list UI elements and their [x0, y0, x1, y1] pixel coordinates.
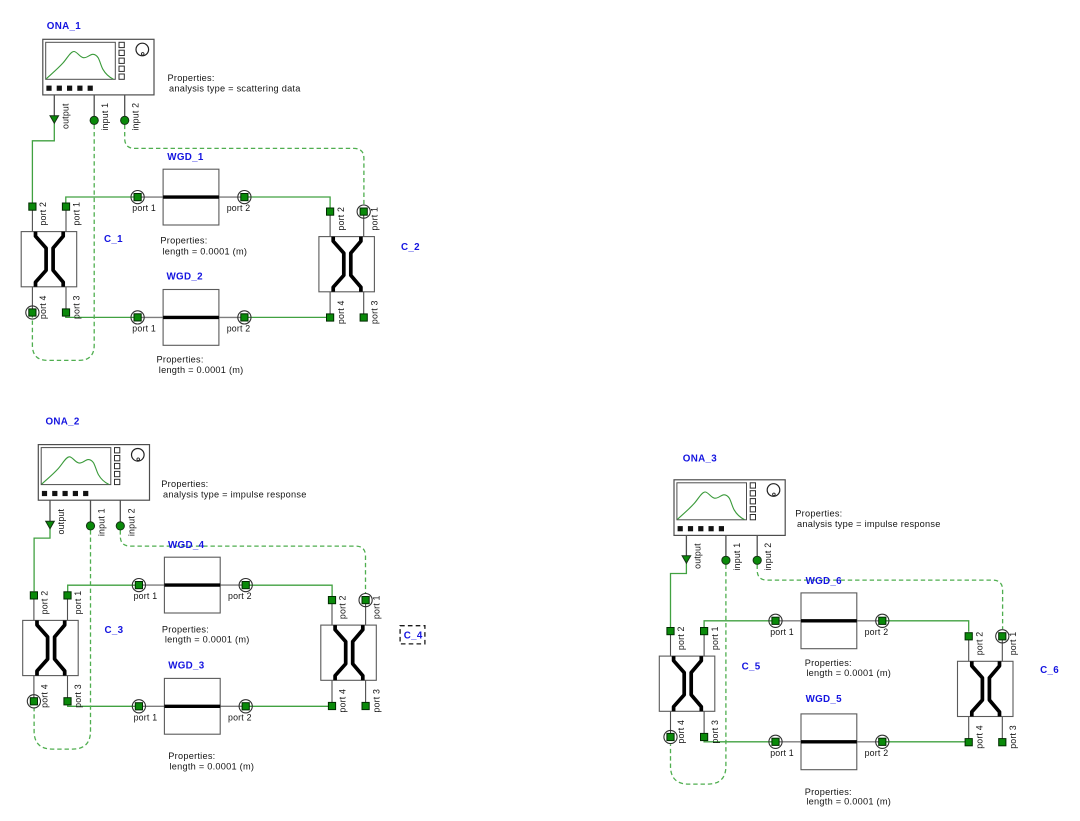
- coupler C_2: [319, 212, 375, 318]
- svg-text:Properties:: Properties:: [795, 508, 842, 518]
- svg-text:ONA_3: ONA_3: [683, 453, 717, 464]
- svg-text:input 1: input 1: [732, 543, 742, 571]
- svg-text:output: output: [56, 508, 66, 534]
- svg-text:input 1: input 1: [100, 103, 110, 131]
- port WGD_2.port2: [227, 311, 251, 334]
- wire WGD_4.port2 to C_4.port2: [246, 585, 332, 596]
- svg-text:port 2: port 2: [228, 591, 252, 601]
- svg-text:port 3: port 3: [710, 720, 720, 744]
- wire WGD_5.port2 to C_6.port4: [882, 741, 968, 743]
- svg-text:C_6: C_6: [1040, 665, 1059, 676]
- svg-text:port 1: port 1: [371, 595, 381, 619]
- properties annotation of ONA_1: [168, 73, 302, 94]
- svg-text:port 3: port 3: [369, 300, 379, 324]
- svg-text:length = 0.0001 (m): length = 0.0001 (m): [806, 668, 891, 678]
- port C_6.port2: [965, 632, 984, 656]
- pin output of ONA_1: [50, 95, 70, 129]
- port C_4.port1: [359, 594, 381, 620]
- port C_2.port1: [357, 205, 379, 231]
- port WGD_5.port2: [865, 735, 889, 758]
- port C_1.port1: [62, 202, 81, 226]
- svg-text:port 1: port 1: [1008, 632, 1018, 656]
- svg-text:C_1: C_1: [104, 234, 123, 245]
- svg-text:port 4: port 4: [676, 720, 686, 744]
- port C_5.port4: [664, 720, 686, 744]
- svg-text:port 4: port 4: [338, 689, 348, 713]
- svg-text:input 2: input 2: [131, 103, 141, 131]
- wire WGD_6.port2 to C_6.port2: [882, 621, 968, 632]
- waveguide WGD_1: [138, 169, 245, 225]
- svg-text:port 2: port 2: [40, 591, 50, 615]
- coupler C_5: [659, 631, 715, 737]
- svg-text:WGD_1: WGD_1: [167, 152, 204, 163]
- svg-text:port 4: port 4: [40, 684, 50, 708]
- coupler C_3: [23, 595, 78, 701]
- wire ONA_1.output to C_1.port2: [32, 123, 54, 203]
- properties annotation of WGD_6: [805, 658, 891, 678]
- waveguide WGD_5: [776, 714, 883, 770]
- dashed wire ONA_3.input2 to C_6.port1: [757, 565, 1002, 629]
- port C_4.port3: [362, 689, 381, 713]
- svg-text:WGD_6: WGD_6: [806, 576, 843, 587]
- svg-text:WGD_4: WGD_4: [168, 540, 205, 551]
- port C_3.port2: [30, 591, 49, 615]
- wire C_1.port1 to WGD_1.port1: [66, 197, 138, 207]
- svg-text:port 3: port 3: [371, 689, 381, 713]
- pin input 1 of ONA_1: [90, 95, 110, 131]
- properties annotation of ONA_3: [795, 508, 940, 529]
- pin input 2 of ONA_1: [121, 95, 141, 131]
- wire WGD_1.port2 to C_2.port2: [245, 197, 330, 208]
- properties annotation of ONA_2: [161, 479, 306, 499]
- port WGD_6.port1: [769, 614, 794, 637]
- svg-text:port 4: port 4: [336, 300, 346, 324]
- port C_6.port4: [965, 725, 984, 749]
- svg-text:ONA_1: ONA_1: [47, 21, 81, 32]
- port WGD_1.port1: [131, 191, 156, 214]
- wire ONA_3.output to C_5.port2: [671, 563, 687, 627]
- svg-text:length = 0.0001 (m): length = 0.0001 (m): [806, 797, 891, 807]
- svg-text:WGD_5: WGD_5: [806, 694, 843, 705]
- port C_5.port1: [701, 626, 720, 650]
- port C_5.port3: [701, 720, 720, 744]
- svg-text:port 1: port 1: [132, 323, 156, 333]
- port C_2.port4: [327, 300, 346, 324]
- svg-text:C_2: C_2: [401, 242, 420, 253]
- port C_4.port4: [328, 689, 347, 713]
- svg-text:port 1: port 1: [710, 626, 720, 650]
- wire C_3.port3 to WGD_3.port1: [68, 701, 139, 706]
- pin output of ONA_3: [682, 535, 702, 569]
- pin input 2 of ONA_2: [116, 500, 136, 536]
- svg-text:port 1: port 1: [134, 591, 158, 601]
- wire ONA_2.output to C_3.port2: [34, 528, 50, 592]
- svg-text:port 1: port 1: [369, 207, 379, 231]
- instrument ONA_2 (optical network analyzer icon): [38, 445, 149, 501]
- wire WGD_3.port2 to C_4.port4: [246, 705, 332, 707]
- svg-text:Properties:: Properties:: [162, 624, 209, 634]
- port WGD_5.port1: [769, 735, 794, 758]
- svg-text:input 2: input 2: [126, 508, 136, 536]
- wire C_3.port1 to WGD_4.port1: [68, 585, 139, 595]
- dashed wire ONA_1.input2 to C_2.port1: [125, 125, 364, 206]
- port C_1.port3: [62, 295, 81, 319]
- svg-text:input 2: input 2: [763, 543, 773, 571]
- svg-text:port 2: port 2: [336, 207, 346, 231]
- svg-text:analysis type = impulse respon: analysis type = impulse response: [797, 519, 941, 529]
- coupler C_1: [21, 207, 76, 313]
- waveguide WGD_6: [776, 593, 883, 649]
- svg-text:Properties:: Properties:: [805, 787, 852, 797]
- svg-text:port 3: port 3: [1008, 725, 1018, 749]
- svg-text:port 1: port 1: [72, 202, 82, 226]
- port C_2.port2: [327, 207, 346, 231]
- svg-text:WGD_3: WGD_3: [168, 661, 205, 672]
- svg-text:port 3: port 3: [72, 295, 82, 319]
- coupler C_4: [321, 600, 377, 706]
- svg-text:Properties:: Properties:: [160, 235, 207, 245]
- svg-text:port 1: port 1: [770, 748, 794, 758]
- port C_1.port2: [29, 202, 48, 226]
- wire C_5.port3 to WGD_5.port1: [704, 737, 778, 741]
- dashed wire ONA_2.input2 to C_4.port1: [120, 530, 365, 594]
- svg-text:port 3: port 3: [73, 684, 83, 708]
- properties annotation of WGD_1: [160, 235, 247, 256]
- port WGD_4.port2: [228, 579, 252, 602]
- svg-text:Properties:: Properties:: [161, 479, 208, 489]
- properties annotation of WGD_3: [168, 751, 254, 771]
- waveguide WGD_3: [139, 678, 246, 734]
- svg-text:Properties:: Properties:: [168, 751, 215, 761]
- instrument ONA_3 (optical network analyzer icon): [674, 480, 785, 536]
- svg-text:port 2: port 2: [227, 203, 251, 213]
- properties annotation of WGD_4: [162, 624, 250, 644]
- svg-text:length = 0.0001 (m): length = 0.0001 (m): [165, 635, 250, 645]
- svg-text:port 1: port 1: [132, 203, 156, 213]
- port WGD_2.port1: [131, 311, 156, 334]
- dashed wire ONA_1.input1 to C_1.port4: [32, 125, 94, 361]
- svg-text:port 1: port 1: [770, 627, 794, 637]
- svg-text:port 2: port 2: [38, 202, 48, 226]
- svg-text:input 1: input 1: [97, 508, 107, 536]
- port WGD_3.port1: [132, 700, 157, 723]
- pin input 1 of ONA_3: [722, 535, 742, 570]
- svg-text:port 2: port 2: [227, 323, 251, 333]
- svg-text:C_5: C_5: [742, 662, 761, 673]
- coupler C_6: [958, 636, 1014, 742]
- svg-text:port 2: port 2: [865, 748, 889, 758]
- svg-text:port 1: port 1: [134, 712, 158, 722]
- properties annotation of WGD_5: [805, 787, 891, 807]
- svg-text:length = 0.0001 (m): length = 0.0001 (m): [159, 365, 244, 375]
- svg-text:port 2: port 2: [338, 595, 348, 619]
- port C_4.port2: [328, 595, 347, 619]
- pin output of ONA_2: [46, 500, 66, 534]
- svg-text:analysis type = scattering dat: analysis type = scattering data: [169, 83, 301, 93]
- instrument ONA_1 (optical network analyzer icon): [43, 39, 154, 95]
- port WGD_6.port2: [865, 614, 889, 637]
- dashed wire ONA_3.input1 to C_5.port4: [671, 565, 726, 785]
- port C_3.port3: [64, 684, 83, 708]
- wire C_1.port3 to WGD_2.port1: [66, 313, 138, 318]
- svg-text:analysis type = impulse respon: analysis type = impulse response: [163, 489, 307, 499]
- port WGD_3.port2: [228, 700, 252, 723]
- svg-text:port 4: port 4: [38, 295, 48, 319]
- wire WGD_2.port2 to C_2.port4: [245, 316, 330, 318]
- waveguide WGD_4: [139, 557, 246, 613]
- properties annotation of WGD_2: [157, 354, 244, 375]
- svg-text:WGD_2: WGD_2: [167, 272, 204, 283]
- svg-text:C_3: C_3: [105, 625, 124, 636]
- svg-text:port 2: port 2: [676, 626, 686, 650]
- port WGD_4.port1: [132, 579, 157, 602]
- port C_6.port1: [996, 630, 1018, 656]
- selection box around label C_4: [400, 626, 425, 644]
- svg-text:output: output: [692, 543, 702, 569]
- svg-text:port 1: port 1: [73, 591, 83, 615]
- waveguide WGD_2: [138, 290, 245, 346]
- svg-text:output: output: [60, 103, 70, 129]
- svg-text:port 2: port 2: [974, 632, 984, 656]
- svg-text:ONA_2: ONA_2: [46, 416, 80, 427]
- port C_5.port2: [667, 626, 686, 650]
- port C_3.port4: [27, 684, 49, 708]
- port C_1.port4: [26, 295, 48, 319]
- svg-text:C_4: C_4: [404, 631, 423, 642]
- port C_6.port3: [999, 725, 1018, 749]
- port C_2.port3: [360, 300, 379, 324]
- port C_3.port1: [64, 591, 83, 615]
- pin input 2 of ONA_3: [753, 535, 773, 570]
- dashed wire ONA_2.input1 to C_3.port4: [34, 530, 90, 749]
- svg-text:length = 0.0001 (m): length = 0.0001 (m): [163, 246, 248, 256]
- port WGD_1.port2: [227, 191, 251, 214]
- svg-text:Properties:: Properties:: [157, 354, 204, 364]
- svg-text:port 4: port 4: [974, 725, 984, 749]
- pin input 1 of ONA_2: [86, 500, 106, 536]
- svg-text:port 2: port 2: [865, 627, 889, 637]
- wire C_5.port1 to WGD_6.port1: [704, 621, 778, 631]
- svg-text:Properties:: Properties:: [168, 73, 215, 83]
- svg-text:length = 0.0001 (m): length = 0.0001 (m): [170, 761, 255, 771]
- svg-text:Properties:: Properties:: [805, 658, 852, 668]
- svg-text:port 2: port 2: [228, 712, 252, 722]
